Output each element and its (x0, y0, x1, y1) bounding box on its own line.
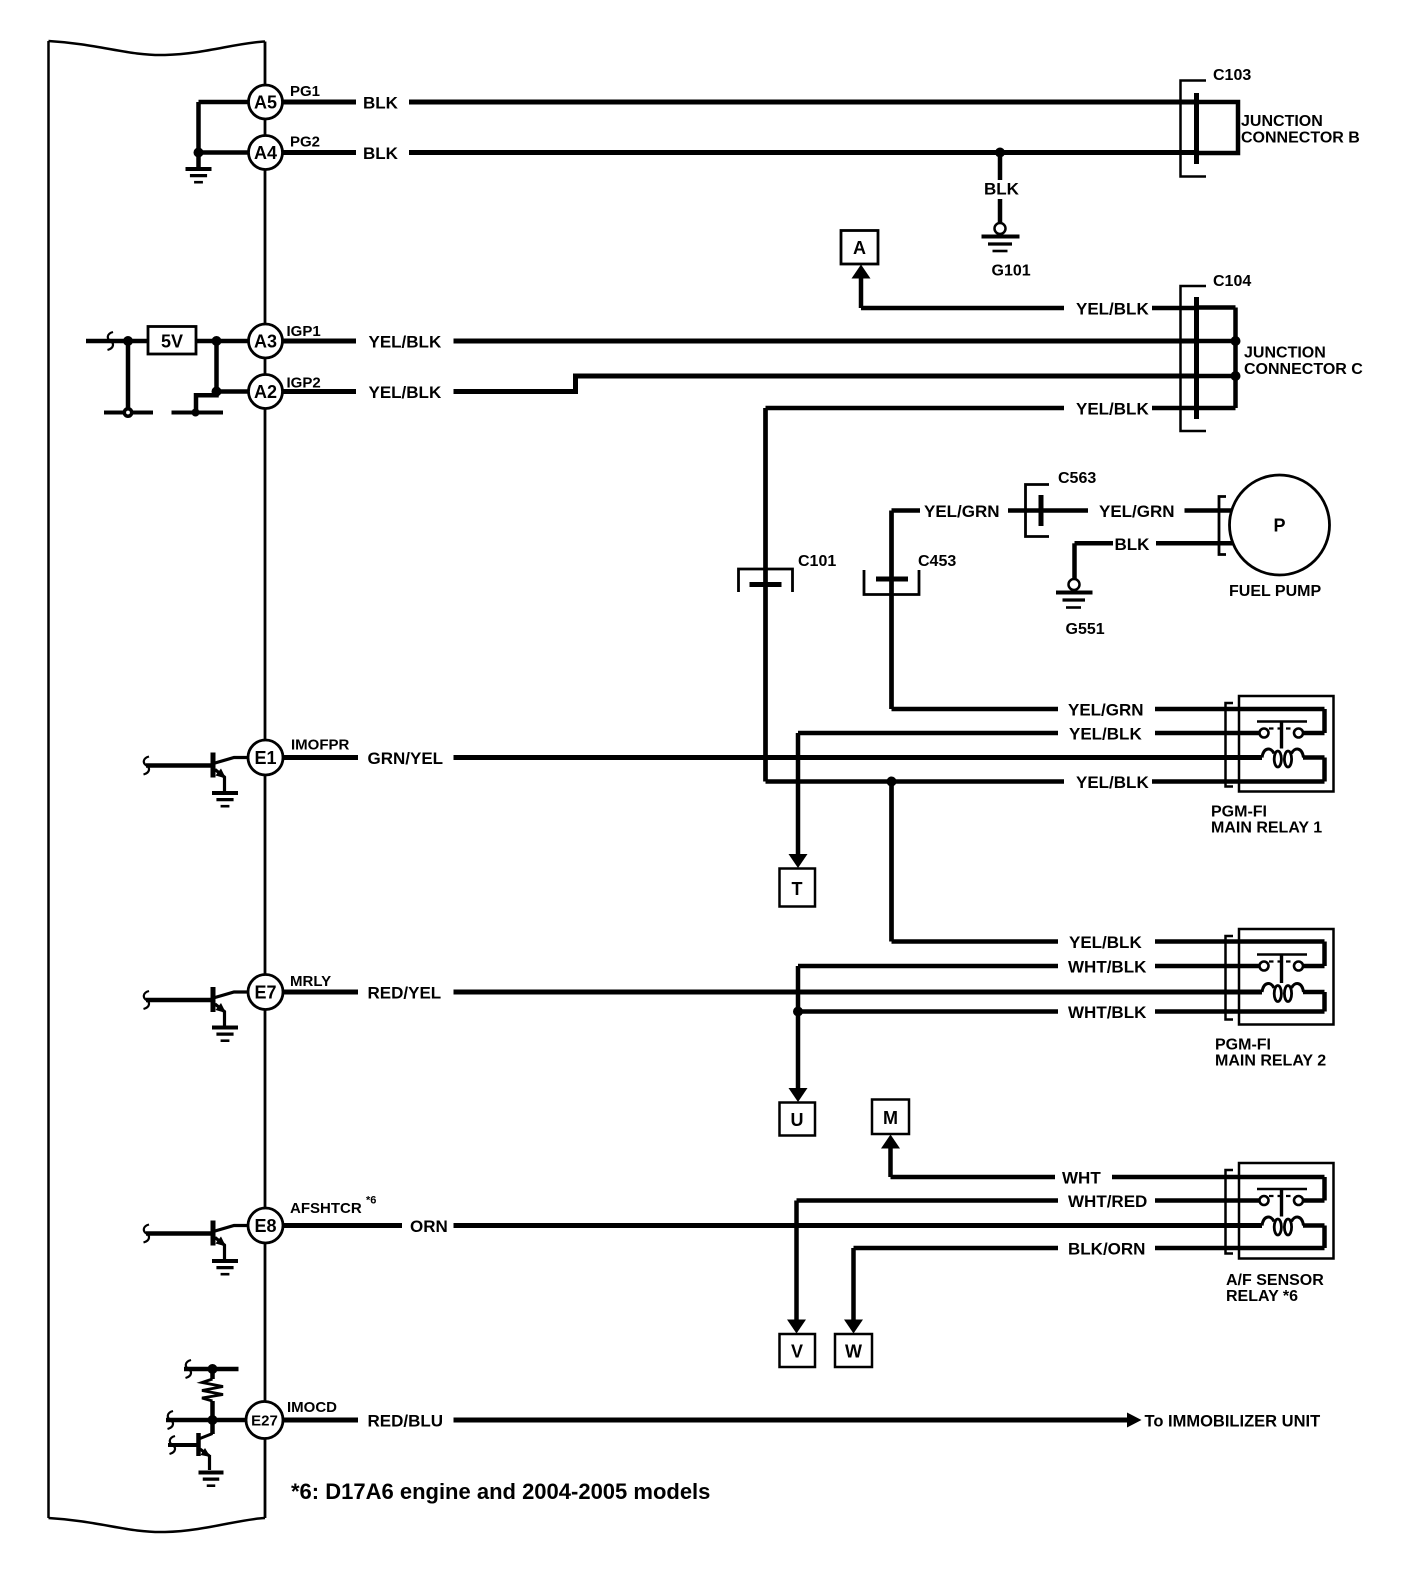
wire pull-up vertical upper (210, 1369, 215, 1379)
label C563 (1058, 470, 1096, 487)
wire relay 1 pin 2 stub (1155, 731, 1239, 736)
svg-text:BLK: BLK (984, 180, 1020, 199)
svg-text:G101: G101 (992, 263, 1031, 280)
wire 5V to A3 (196, 339, 249, 344)
svg-text:PG2: PG2 (290, 134, 320, 151)
svg-text:PG1: PG1 (290, 83, 320, 100)
wire IGP1 YEL/BLK segment a (283, 339, 356, 344)
svg-text:WHT: WHT (1062, 1169, 1101, 1188)
label WHT (A/F relay pin 1) (1062, 1169, 1101, 1188)
wire IGP1-IGP2 vertical link (214, 341, 219, 392)
wire IGP1 YEL/BLK segment b (454, 339, 1197, 344)
svg-text:A3: A3 (254, 331, 277, 351)
pin E7 (248, 975, 283, 1010)
label YEL/GRN (right of C563) (1099, 502, 1175, 521)
pin A4 (249, 136, 283, 170)
arrow into box U (789, 1088, 808, 1102)
label BLK (fuel pump) (1115, 535, 1151, 554)
svg-text:C563: C563 (1058, 470, 1096, 487)
svg-text:RED/BLU: RED/BLU (368, 1412, 444, 1431)
svg-text:PGM-FI: PGM-FI (1215, 1037, 1271, 1054)
label ORN (410, 1217, 448, 1236)
svg-text:A5: A5 (254, 92, 277, 112)
pin A2 (249, 375, 283, 409)
resistor R (E27 pull-up) (202, 1379, 223, 1401)
wire A2 left hook (196, 392, 249, 413)
pin A3 (249, 324, 283, 358)
reference box U (780, 1103, 816, 1136)
junction dot pull-up (208, 1364, 218, 1374)
svg-text:YEL/GRN: YEL/GRN (1068, 701, 1144, 720)
svg-text:ORN: ORN (410, 1217, 448, 1236)
wire pull-up vertical lower (210, 1401, 215, 1434)
svg-text:YEL/BLK: YEL/BLK (1076, 400, 1149, 419)
label YEL/GRN (left of C563) (924, 502, 1000, 521)
svg-text:FUEL PUMP: FUEL PUMP (1229, 583, 1321, 600)
connector C104 terminal bar (1194, 297, 1199, 419)
svg-text:IGP1: IGP1 (287, 323, 321, 340)
wire relay 2 pin 4 stub (1155, 1009, 1239, 1014)
junction dot E27 base row (208, 1415, 218, 1425)
svg-text:PGM-FI: PGM-FI (1211, 804, 1267, 821)
reference box M (872, 1100, 909, 1135)
wire YEL/GRN relay 1 pin 1 corner (892, 707, 1059, 712)
arrow into box A (852, 265, 871, 279)
svg-text:E27: E27 (251, 1412, 278, 1429)
reference box V (780, 1334, 816, 1367)
wire drop to box T (796, 733, 801, 855)
wire E27 base row (166, 1418, 246, 1423)
wire BLK/ORN A/F relay pin 4 (854, 1246, 1059, 1251)
wire GRN/YEL segment b (to relay 1 coil) (454, 755, 1263, 760)
svg-text:RELAY *6: RELAY *6 (1226, 1288, 1298, 1305)
label YEL/BLK (relay 2 pin 1) (1069, 933, 1142, 952)
svg-text:E1: E1 (254, 748, 276, 768)
transistor driver at E7 (144, 987, 249, 1041)
ground G551 (1056, 579, 1093, 608)
reference box W (835, 1334, 872, 1367)
footnote *6 (291, 1479, 710, 1504)
junction dot 5V feed (123, 336, 133, 346)
wire WHT to box M (891, 1147, 1056, 1177)
connector C103 bracket (1181, 81, 1207, 177)
svg-text:WHT/BLK: WHT/BLK (1068, 958, 1147, 977)
arrow to immobilizer unit (1127, 1413, 1142, 1428)
svg-text:U: U (791, 1110, 804, 1130)
label YEL/GRN (relay 1 pin 1) (1068, 701, 1144, 720)
wire drop to terminator bar (126, 341, 131, 413)
wire 5V feed (86, 339, 148, 344)
svg-text:IMOFPR: IMOFPR (291, 737, 349, 754)
junction dot relay 2 pin 4 (793, 1007, 803, 1017)
wire BLK drop to G101 lower (998, 199, 1003, 224)
fuel pump connector bracket (1219, 497, 1226, 555)
junction dot A4/ground (194, 148, 204, 158)
wire YEL/BLK C104 bottom row stub (1152, 406, 1197, 411)
svg-text:MRLY: MRLY (290, 973, 331, 990)
fuel pump motor P (1230, 475, 1330, 575)
ECM housing outline (wavy-edged box) (49, 41, 266, 1532)
pin E8 (248, 1208, 283, 1243)
wire PG1 BLK segment a (283, 100, 356, 105)
wire YEL/BLK to box A (861, 277, 1064, 308)
label YEL/BLK (relay 1 pin 4) (1076, 773, 1149, 792)
wire relay 1 pin 1 stub (1155, 707, 1239, 712)
svg-text:T: T (792, 879, 803, 899)
svg-text:MAIN RELAY 2: MAIN RELAY 2 (1215, 1053, 1326, 1070)
label C104 (1213, 273, 1251, 290)
svg-text:YEL/BLK: YEL/BLK (1069, 725, 1142, 744)
svg-text:YEL/GRN: YEL/GRN (924, 502, 1000, 521)
wire ORN segment b (to A/F relay coil) (454, 1223, 1263, 1228)
svg-text:BLK/ORN: BLK/ORN (1068, 1240, 1145, 1259)
pin E1 (248, 740, 283, 775)
wire YEL/GRN C453 vertical (to relay 1) (889, 511, 894, 710)
svg-text:G551: G551 (1066, 621, 1105, 638)
svg-text:WHT/BLK: WHT/BLK (1068, 1003, 1147, 1022)
wire A5 PG1 left hook to ground (199, 102, 249, 167)
label IMOCD (287, 1399, 337, 1416)
svg-text:C101: C101 (798, 553, 836, 570)
svg-text:C453: C453 (918, 553, 956, 570)
wire drop to box W (851, 1248, 856, 1321)
svg-text:YEL/BLK: YEL/BLK (1076, 300, 1149, 319)
label JUNCTION CONNECTOR B (1241, 113, 1360, 147)
label PG2 (290, 134, 320, 151)
svg-text:JUNCTION: JUNCTION (1244, 345, 1326, 362)
arrow into box V (787, 1320, 806, 1334)
svg-text:A: A (853, 238, 866, 258)
label YEL/BLK (IGP1) (369, 333, 442, 352)
label G551 (1066, 621, 1105, 638)
wire IGP2 YEL/BLK segment a (283, 389, 356, 394)
reference box A (841, 231, 878, 265)
wire PG1 BLK segment b (409, 100, 1197, 105)
label YEL/BLK (C104 bottom row) (1076, 400, 1149, 419)
wire A4 PG2 left stub (199, 150, 249, 155)
connector C563 (1026, 485, 1050, 537)
transistor driver at E27 (168, 1433, 224, 1486)
label G101 (992, 263, 1031, 280)
svg-text:A2: A2 (254, 382, 277, 402)
svg-text:BLK: BLK (363, 94, 399, 113)
relay K2 PGM-FI main relay 2 (1226, 929, 1334, 1025)
wire BLK drop to G101 (998, 153, 1003, 181)
wire A/F relay pin 2 stub (1155, 1198, 1239, 1203)
label GRN/YEL (368, 749, 444, 768)
label C453 (918, 553, 956, 570)
wire RED/BLU segment a (283, 1418, 358, 1423)
svg-text:P: P (1273, 516, 1285, 536)
junction dot IGP2 tap (212, 387, 222, 397)
connector C104 loop right edge (1233, 308, 1238, 409)
terminator bar (filled dot) (172, 409, 224, 417)
wire YEL/BLK relay 1 pin 2 (798, 731, 1058, 736)
svg-text:M: M (883, 1108, 898, 1128)
svg-text:AFSHTCR: AFSHTCR (290, 1200, 362, 1217)
svg-text:E8: E8 (254, 1216, 276, 1236)
wire WHT/BLK relay 2 pin 4 (798, 1009, 1058, 1014)
wire YEL/GRN to fuel pump (1185, 508, 1232, 513)
label C103 (1213, 67, 1251, 84)
label C101 (798, 553, 836, 570)
wire BLK to G551 (1075, 543, 1114, 579)
label IGP1 (287, 323, 321, 340)
junction dot C104 lower (1231, 371, 1241, 381)
svg-text:YEL/GRN: YEL/GRN (1099, 502, 1175, 521)
transistor driver at E8 (144, 1221, 249, 1275)
svg-text:YEL/BLK: YEL/BLK (369, 333, 442, 352)
label PGM-FI MAIN RELAY 2 (1215, 1037, 1326, 1070)
label BLK (PG2) (363, 144, 399, 163)
wire WHT/RED A/F relay pin 2 (797, 1198, 1059, 1203)
label PGM-FI MAIN RELAY 1 (1211, 804, 1322, 837)
wire GRN/YEL segment a (283, 755, 358, 760)
ground (ECM internal, A5/A4) (186, 169, 212, 182)
wire drop to box V (794, 1201, 799, 1322)
label WHT/BLK (relay 2 pin 2) (1068, 958, 1147, 977)
wire YEL/BLK C104 bottom row (766, 406, 1065, 411)
label YEL/BLK (relay 1 pin 2) (1069, 725, 1142, 744)
junction dot relay 2 feed (887, 777, 897, 787)
wire ORN segment a (283, 1223, 402, 1228)
label BLK (G101) (984, 180, 1020, 199)
label A/F SENSOR RELAY *6 (1226, 1272, 1324, 1305)
wire PG2 BLK segment a (283, 150, 356, 155)
svg-text:C103: C103 (1213, 67, 1251, 84)
svg-text:C104: C104 (1213, 273, 1251, 290)
terminator bar (open circle) (104, 407, 153, 418)
cut-wire mark (E27 base) (168, 1411, 174, 1429)
wire BLK from fuel pump (1156, 541, 1233, 546)
arrow into box T (789, 854, 808, 868)
wire RED/BLU segment b (to immobilizer) (454, 1418, 1129, 1423)
cut-wire mark (E27 pull-up feed) (186, 1360, 192, 1378)
svg-text:YEL/BLK: YEL/BLK (1069, 933, 1142, 952)
reference box T (780, 869, 816, 907)
svg-text:RED/YEL: RED/YEL (368, 984, 442, 1003)
label JUNCTION CONNECTOR C (1244, 345, 1363, 379)
relay K1 PGM-FI main relay 1 (1226, 696, 1334, 792)
box 5V reference (148, 327, 196, 355)
label FUEL PUMP (1229, 583, 1321, 600)
connector C103 loop box (1197, 102, 1239, 153)
connector C453 (864, 570, 919, 595)
wire YEL/GRN through C563 (1008, 508, 1088, 513)
ground G101 (982, 223, 1020, 251)
svg-text:V: V (791, 1342, 803, 1362)
connector C104 loop stubs (1197, 308, 1236, 409)
pin A5 (249, 85, 283, 119)
svg-text:MAIN RELAY 1: MAIN RELAY 1 (1211, 820, 1322, 837)
wire relay 2 pin 2 stub (1155, 964, 1239, 969)
label YEL/BLK (box A row) (1076, 300, 1149, 319)
label BLK/ORN (A/F relay pin 4) (1068, 1240, 1145, 1259)
label YEL/BLK (IGP2) (369, 383, 442, 402)
cut-wire mark (5V feed) (108, 332, 114, 350)
wire A/F relay pin 4 stub (1155, 1246, 1239, 1251)
wire YEL/BLK relay 2 pin 1 (892, 939, 1059, 944)
svg-text:IMOCD: IMOCD (287, 1399, 337, 1416)
wire pull-up feed (184, 1367, 239, 1372)
svg-text:IGP2: IGP2 (287, 375, 321, 392)
label IGP2 (287, 375, 321, 392)
label MRLY (290, 973, 331, 990)
wire WHT/BLK relay 2 pin 2 (798, 964, 1058, 969)
svg-text:BLK: BLK (363, 144, 399, 163)
svg-text:YEL/BLK: YEL/BLK (369, 383, 442, 402)
label AFSHTCR *6 (290, 1195, 376, 1218)
svg-text:JUNCTION: JUNCTION (1241, 113, 1323, 130)
label PG1 (290, 83, 320, 100)
svg-text:W: W (845, 1342, 862, 1362)
wire IGP2 YEL/BLK segment b (jog up) (454, 376, 1197, 392)
label RED/BLU (368, 1412, 444, 1431)
wire YEL/GRN from C453 top corner (892, 508, 921, 513)
svg-text:YEL/BLK: YEL/BLK (1076, 773, 1149, 792)
arrow into box W (844, 1320, 863, 1334)
label BLK (PG1) (363, 94, 399, 113)
svg-text:A/F SENSOR: A/F SENSOR (1226, 1272, 1324, 1289)
connector C103 terminal bar (1194, 93, 1199, 164)
svg-text:To IMMOBILIZER UNIT: To IMMOBILIZER UNIT (1145, 1413, 1321, 1431)
label WHT/BLK (relay 2 pin 4) (1068, 1003, 1147, 1022)
wire relay 2 pin 1 stub (1155, 939, 1239, 944)
wire YEL/BLK box A row stub (1152, 306, 1197, 311)
label RED/YEL (368, 984, 442, 1003)
connector C104 bracket (1181, 286, 1207, 431)
svg-text:WHT/RED: WHT/RED (1068, 1192, 1147, 1211)
wire YEL/BLK relay 2 feed vertical (889, 782, 894, 942)
svg-text:CONNECTOR B: CONNECTOR B (1241, 130, 1360, 147)
junction dot C104 upper (1231, 336, 1241, 346)
junction dot G101 tap (995, 148, 1005, 158)
svg-text:BLK: BLK (1115, 535, 1151, 554)
svg-text:CONNECTOR C: CONNECTOR C (1244, 361, 1363, 378)
wire A/F relay pin 1 stub (1112, 1175, 1239, 1180)
pin E27 (246, 1402, 283, 1439)
wire PG2 BLK segment b (409, 150, 1197, 155)
svg-text:GRN/YEL: GRN/YEL (368, 749, 444, 768)
svg-text:*6: *6 (366, 1195, 376, 1207)
wire RED/YEL segment b (to relay 2 coil) (454, 990, 1263, 995)
junction dot IGP1 tap (212, 336, 222, 346)
label WHT/RED (A/F relay pin 2) (1068, 1192, 1147, 1211)
wire drop to box U (796, 966, 801, 1089)
transistor driver at E1 (144, 753, 249, 807)
svg-text:E7: E7 (254, 982, 276, 1002)
connector C101 (739, 569, 793, 592)
wire relay 1 pin 4 stub (1152, 779, 1239, 784)
wire RED/YEL segment a (283, 990, 358, 995)
arrow into box M (881, 1135, 900, 1149)
wire YEL/BLK relay 1 pin 4 (766, 779, 1065, 784)
label To IMMOBILIZER UNIT (1145, 1413, 1321, 1431)
svg-text:*6: D17A6 engine and 2004-2005: *6: D17A6 engine and 2004-2005 models (291, 1479, 710, 1504)
wire YEL/BLK vertical feeder (through C101) (763, 408, 768, 782)
svg-text:A4: A4 (254, 143, 277, 163)
label IMOFPR (291, 737, 349, 754)
relay K3 A/F sensor relay (1226, 1163, 1334, 1259)
svg-text:5V: 5V (161, 332, 183, 352)
